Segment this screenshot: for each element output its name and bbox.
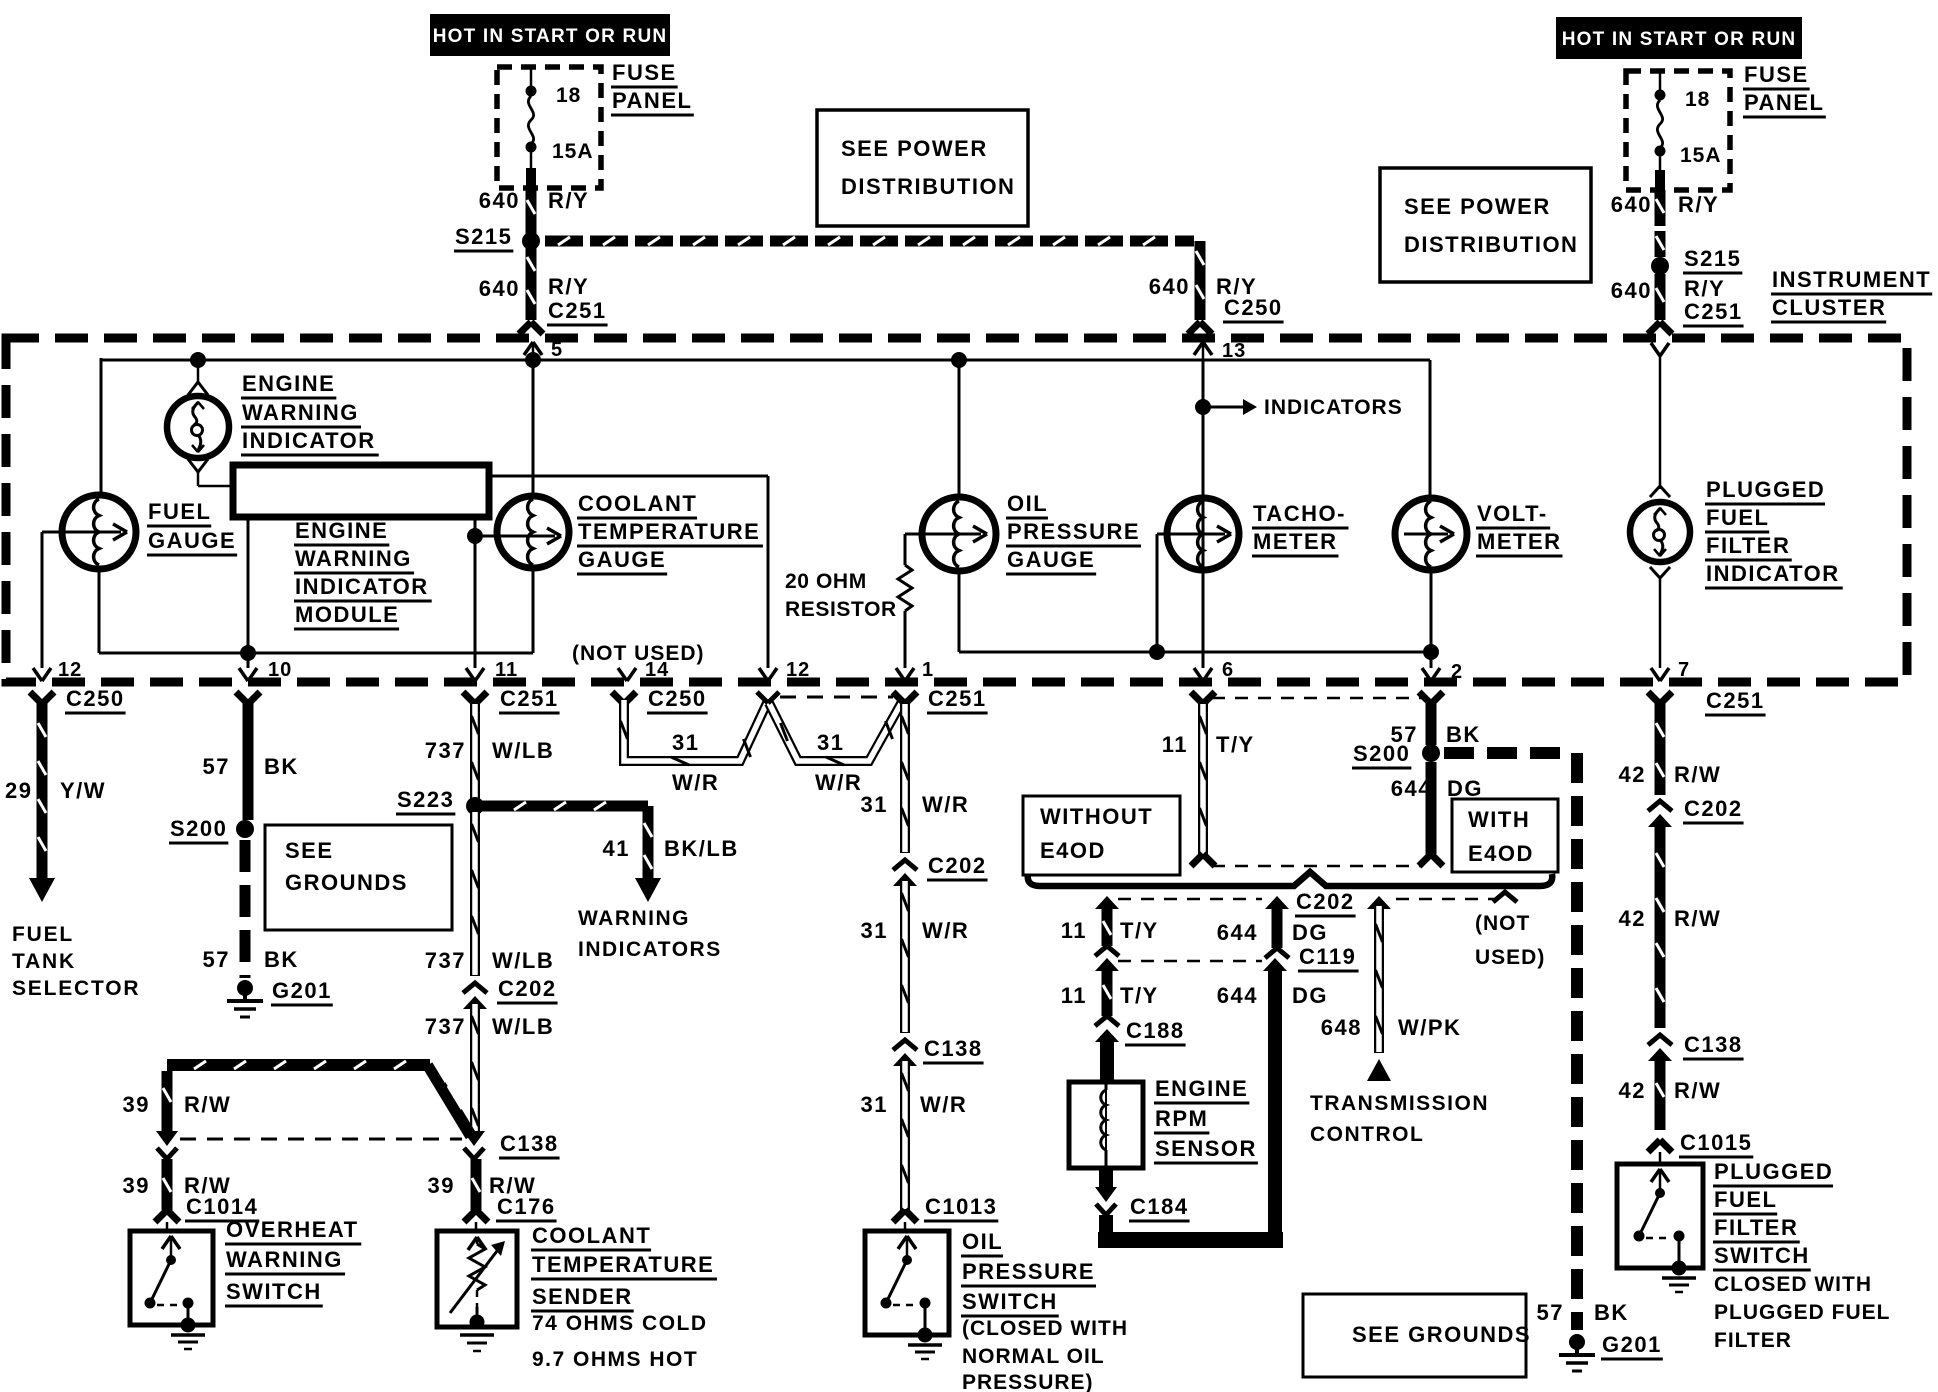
wire 42 R/W pin 7 to C202: [1655, 703, 1666, 795]
svg-text:Y/W: Y/W: [60, 778, 106, 803]
pin 10 arrow: [239, 668, 248, 681]
svg-text:11: 11: [1061, 918, 1087, 943]
dashed connector boundary bottom: [1212, 865, 1422, 868]
svg-text:737: 737: [425, 1014, 466, 1039]
wire module to pin 12 (right): [489, 475, 768, 478]
svg-text:RESISTOR: RESISTOR: [785, 598, 897, 621]
wire 644 DG segment C202-C119: [1265, 896, 1289, 909]
node bus-oil gauge: [951, 352, 967, 368]
svg-text:COOLANT: COOLANT: [578, 491, 697, 516]
wire 644 DG S200 down: [1426, 762, 1437, 854]
svg-text:SELECTOR: SELECTOR: [12, 977, 140, 1000]
connector C251 pin 1 below cluster: [893, 692, 905, 704]
connector C184: [1095, 1187, 1117, 1202]
note box SEE GROUNDS (mid): [265, 825, 452, 930]
splice S215 (left): [522, 232, 540, 250]
svg-text:644: 644: [1217, 983, 1258, 1008]
svg-text:39: 39: [428, 1173, 455, 1198]
ground plugged fuel filter switch: [1672, 1261, 1687, 1276]
svg-text:C188: C188: [1126, 1018, 1185, 1043]
connector C251 pin 7 below cluster: [1648, 692, 1660, 704]
wire tachometer sense: [1156, 534, 1159, 652]
svg-text:SENSOR: SENSOR: [1155, 1136, 1257, 1161]
svg-text:S215: S215: [455, 224, 512, 249]
svg-text:7: 7: [1678, 659, 1690, 681]
svg-text:W/R: W/R: [815, 770, 862, 795]
svg-text:39: 39: [123, 1173, 150, 1198]
dashed connector boundary top: [1212, 697, 1422, 700]
wire coolant gauge to bus pin 5: [532, 360, 535, 496]
pin 1 arrow: [896, 668, 905, 681]
svg-text:PRESSURE: PRESSURE: [1007, 519, 1140, 544]
svg-text:20 OHM: 20 OHM: [785, 570, 867, 593]
svg-text:WARNING: WARNING: [242, 400, 359, 425]
svg-text:C202: C202: [498, 976, 557, 1001]
pin 11 arrow: [466, 668, 475, 681]
svg-text:11: 11: [1162, 732, 1188, 757]
wire 31 W/R C202 to C138: [900, 880, 910, 1033]
svg-text:DISTRIBUTION: DISTRIBUTION: [1404, 232, 1578, 257]
oil pressure gauge: [922, 497, 996, 571]
svg-text:644: 644: [1217, 920, 1258, 945]
fuse panel box (left): [497, 67, 601, 188]
cluster feed bus wire: [101, 359, 1430, 362]
svg-text:C250: C250: [66, 686, 125, 711]
svg-text:FUEL: FUEL: [12, 923, 74, 946]
connector C250 pin 14 below cluster: [612, 692, 624, 704]
wire 648 W/PK to transmission control: [1367, 896, 1391, 909]
connector C251 into cluster pin 5: [519, 322, 531, 334]
wire lamp to module: [197, 472, 200, 486]
svg-text:PANEL: PANEL: [612, 88, 692, 113]
svg-text:OVERHEAT: OVERHEAT: [226, 1217, 359, 1242]
plugged fuel filter switch box: [1659, 1152, 1662, 1164]
svg-text:DG: DG: [1292, 920, 1328, 945]
wire oil gauge return: [958, 571, 961, 652]
svg-text:FILTER: FILTER: [1714, 1329, 1792, 1352]
svg-text:C184: C184: [1130, 1194, 1189, 1219]
svg-text:57: 57: [1537, 1300, 1564, 1325]
fuse 18 (15A) right: [1659, 71, 1662, 91]
power label HOT IN START OR RUN (right): [1556, 17, 1802, 59]
svg-text:FILTER: FILTER: [1714, 1215, 1798, 1240]
wire 640 R/Y S215 to C251 (right): [1655, 274, 1666, 320]
wire 57 BK S200 to G201 (dashed): [240, 840, 251, 872]
wire pin13 through tachometer to pin 6: [1202, 360, 1205, 668]
svg-text:PLUGGED: PLUGGED: [1706, 477, 1825, 502]
svg-text:57: 57: [203, 754, 230, 779]
wire 11 T/Y segment C119-C188: [1095, 958, 1119, 971]
wire 57 BK dashed S200 to G201: [1444, 747, 1474, 759]
wire 11 T/Y segment C202-C119: [1095, 896, 1119, 909]
instrument cluster dashed border: [6, 338, 1907, 682]
svg-text:FUSE: FUSE: [1744, 62, 1809, 87]
wire fuel gauge return bus: [98, 569, 101, 653]
svg-text:74 OHMS COLD: 74 OHMS COLD: [532, 1312, 708, 1335]
svg-text:PRESSURE): PRESSURE): [962, 1371, 1094, 1392]
ground overheat warning switch: [181, 1318, 196, 1333]
transmission control off-page triangle: [1367, 1059, 1391, 1081]
pin 6 arrow: [1194, 668, 1203, 681]
svg-text:R/Y: R/Y: [1678, 192, 1719, 217]
svg-text:DISTRIBUTION: DISTRIBUTION: [841, 174, 1015, 199]
svg-text:INDICATOR: INDICATOR: [242, 428, 376, 453]
svg-text:FUEL: FUEL: [148, 499, 211, 524]
svg-text:640: 640: [1611, 192, 1652, 217]
note box SEE POWER DISTRIBUTION (right): [1380, 168, 1591, 282]
pin 12 arrow (left): [33, 668, 42, 681]
splice S223: [466, 797, 484, 815]
wire 57 BK pin 2 to S200: [1426, 703, 1437, 745]
wire 42 R/W C202 to C138: [1655, 821, 1666, 1028]
wire 31 W/R C138 to C1013: [900, 1060, 910, 1210]
engine rpm sensor box: [1069, 1082, 1143, 1168]
svg-text:INSTRUMENT: INSTRUMENT: [1772, 267, 1931, 292]
svg-text:31: 31: [817, 730, 844, 755]
svg-text:FUEL: FUEL: [1706, 505, 1769, 530]
svg-text:11: 11: [495, 659, 518, 681]
wire 640 R/Y fuse to S215 (left): [526, 188, 537, 236]
svg-text:29: 29: [5, 778, 32, 803]
svg-text:SEE POWER: SEE POWER: [1404, 194, 1551, 219]
tachometer: [1167, 498, 1239, 570]
svg-text:C202: C202: [1684, 796, 1743, 821]
svg-text:R/Y: R/Y: [1684, 276, 1725, 301]
svg-text:BK/LB: BK/LB: [664, 836, 739, 861]
svg-text:5: 5: [551, 339, 563, 361]
note box SEE POWER DISTRIBUTION (left): [817, 110, 1028, 226]
svg-text:METER: METER: [1477, 529, 1562, 554]
connector pin 2 below cluster: [1419, 692, 1431, 704]
svg-text:VOLT-: VOLT-: [1477, 501, 1548, 526]
fuel gauge: [62, 495, 136, 569]
pin 5 arrow: [524, 342, 533, 355]
svg-text:GROUNDS: GROUNDS: [285, 870, 408, 895]
connector C250 pin 12 below cluster: [30, 692, 42, 704]
svg-text:W/R: W/R: [922, 792, 969, 817]
svg-text:G201: G201: [1602, 1332, 1662, 1357]
connector C138 on 31 wire: [893, 1040, 917, 1050]
connector C1014: [155, 1210, 167, 1222]
svg-text:C202: C202: [928, 853, 987, 878]
connector pin 6 below cluster: [1191, 692, 1203, 704]
overheat warning switch box: [166, 1222, 169, 1231]
svg-text:FUSE: FUSE: [612, 60, 677, 85]
svg-text:ENGINE: ENGINE: [1155, 1076, 1248, 1101]
svg-text:PLUGGED: PLUGGED: [1714, 1159, 1833, 1184]
connector pin 10 below cluster: [236, 692, 248, 704]
svg-text:T/Y: T/Y: [1120, 983, 1159, 1008]
svg-text:640: 640: [1149, 274, 1190, 299]
svg-text:BK: BK: [264, 754, 299, 779]
svg-text:C251: C251: [1706, 688, 1765, 713]
svg-text:CLUSTER: CLUSTER: [1772, 295, 1886, 320]
pin 14 arrow: [618, 668, 627, 681]
svg-text:PLUGGED FUEL: PLUGGED FUEL: [1714, 1301, 1891, 1324]
dashed line C119 row: [1118, 960, 1262, 963]
svg-text:C251: C251: [500, 686, 559, 711]
svg-text:737: 737: [425, 948, 466, 973]
rpm sensor coil: [1105, 1082, 1107, 1168]
node voltmeter-return bus: [1423, 644, 1439, 660]
svg-text:TEMPERATURE: TEMPERATURE: [578, 519, 760, 544]
wire 640 R/Y fuse to S215 (right): [1655, 190, 1666, 226]
wire 11 T/Y pin 6 down: [1198, 703, 1208, 855]
svg-text:METER: METER: [1253, 529, 1338, 554]
svg-text:INDICATOR: INDICATOR: [1706, 561, 1840, 586]
wire 31 W/R pin1 to C202: [900, 703, 910, 853]
svg-text:C176: C176: [497, 1194, 556, 1219]
connector C202 on 31 wire: [893, 860, 917, 870]
svg-text:6: 6: [1222, 659, 1234, 681]
svg-text:18: 18: [1685, 88, 1710, 111]
wire 640 R/Y dashed bus S215 to right drop: [545, 236, 583, 247]
svg-text:GAUGE: GAUGE: [148, 528, 236, 553]
wire 644 DG return loop: [1099, 1215, 1113, 1240]
svg-text:E4OD: E4OD: [1040, 838, 1106, 863]
svg-text:42: 42: [1619, 762, 1646, 787]
svg-text:13: 13: [1222, 340, 1246, 362]
svg-text:31: 31: [672, 730, 699, 755]
note box WITH E4OD: [1452, 799, 1558, 872]
cluster return bus wire: [959, 651, 1431, 654]
connector C250 into cluster pin 13: [1188, 322, 1200, 334]
svg-text:WITH: WITH: [1468, 807, 1530, 832]
svg-text:TRANSMISSION: TRANSMISSION: [1310, 1092, 1489, 1115]
svg-text:T/Y: T/Y: [1216, 732, 1255, 757]
svg-text:R/W: R/W: [1674, 762, 1721, 787]
svg-text:(CLOSED WITH: (CLOSED WITH: [962, 1317, 1128, 1340]
svg-text:NORMAL OIL: NORMAL OIL: [962, 1345, 1105, 1368]
svg-text:TEMPERATURE: TEMPERATURE: [532, 1252, 714, 1277]
node tach sense-return bus: [1149, 644, 1165, 660]
svg-text:S200: S200: [1353, 741, 1410, 766]
coolant temperature sender box: [475, 1222, 478, 1231]
voltmeter: [1395, 498, 1467, 570]
node indicators branch: [1195, 399, 1211, 415]
svg-text:640: 640: [1611, 278, 1652, 303]
svg-text:COOLANT: COOLANT: [532, 1223, 651, 1248]
svg-text:31: 31: [861, 792, 888, 817]
fuse panel box (right): [1626, 71, 1730, 190]
wire 737 W/LB S223 to C202: [470, 811, 480, 976]
svg-text:10: 10: [268, 659, 292, 681]
connector C202 (right): [1648, 801, 1672, 811]
svg-text:CONTROL: CONTROL: [1310, 1123, 1424, 1146]
resistor 20 OHM: [898, 565, 912, 611]
svg-text:C138: C138: [500, 1131, 559, 1156]
svg-text:G201: G201: [272, 978, 332, 1003]
svg-text:BK: BK: [1446, 722, 1481, 747]
svg-text:FILTER: FILTER: [1706, 533, 1790, 558]
connector C1013: [893, 1210, 905, 1222]
connector C202 on 737 wire: [463, 983, 487, 993]
svg-text:FUEL: FUEL: [1714, 1187, 1777, 1212]
wire 737 W/LB pin 11 to S223: [470, 703, 480, 801]
wire rpm sensor to C184: [1099, 1168, 1113, 1188]
svg-text:BK: BK: [264, 947, 299, 972]
svg-text:15A: 15A: [552, 140, 594, 163]
svg-text:WARNING: WARNING: [226, 1247, 343, 1272]
svg-text:TANK: TANK: [12, 950, 76, 973]
svg-text:SEE POWER: SEE POWER: [841, 136, 988, 161]
pin 7 arrow: [1651, 668, 1660, 681]
splice S200 (right): [1422, 744, 1440, 762]
connector C1015: [1648, 1140, 1660, 1152]
dashed line C202 row: [1118, 898, 1262, 901]
svg-text:BK: BK: [1594, 1300, 1629, 1325]
svg-text:R/Y: R/Y: [548, 274, 589, 299]
svg-text:1: 1: [922, 659, 934, 681]
wire bus to oil pressure gauge: [958, 360, 961, 498]
svg-text:(NOT: (NOT: [1475, 912, 1530, 935]
wire 644 DG segment below C119: [1263, 958, 1287, 971]
svg-text:11: 11: [1061, 983, 1087, 1008]
svg-text:2: 2: [1451, 661, 1463, 683]
wire bus to voltmeter: [1429, 360, 1432, 498]
svg-text:SENDER: SENDER: [532, 1284, 633, 1309]
svg-text:640: 640: [479, 276, 520, 301]
svg-text:S223: S223: [397, 787, 454, 812]
oil pressure switch box: [904, 1222, 907, 1231]
svg-text:C1015: C1015: [1680, 1130, 1752, 1155]
engine warning indicator module box: [233, 465, 489, 517]
svg-text:15A: 15A: [1680, 144, 1722, 167]
svg-text:TACHO-: TACHO-: [1253, 501, 1346, 526]
ground G201 (left): [237, 980, 253, 996]
dashed link apex to pin 1: [780, 696, 893, 699]
svg-text:C1014: C1014: [186, 1194, 258, 1219]
svg-text:RPM: RPM: [1155, 1106, 1208, 1131]
pin 2 arrow: [1422, 668, 1431, 681]
svg-text:18: 18: [556, 84, 581, 107]
svg-text:C138: C138: [924, 1036, 983, 1061]
connector C138 right half: [463, 1131, 485, 1146]
svg-text:648: 648: [1321, 1015, 1362, 1040]
svg-text:CLOSED WITH: CLOSED WITH: [1714, 1273, 1872, 1296]
splice S200 (left): [236, 820, 254, 838]
fuse 18 (15A) left: [530, 67, 533, 87]
svg-text:737: 737: [425, 738, 466, 763]
svg-text:SWITCH: SWITCH: [226, 1279, 322, 1304]
svg-text:W/R: W/R: [672, 770, 719, 795]
connector C138 (right): [1648, 1035, 1672, 1045]
svg-text:ENGINE: ENGINE: [242, 371, 335, 396]
connector pin 12 fork (zigzag apex): [757, 692, 768, 703]
svg-text:ENGINE: ENGINE: [295, 518, 388, 543]
wire 31 W/R zigzag pin14-pin12-pin1: [624, 700, 767, 761]
connector C138 left half: [156, 1131, 178, 1146]
svg-text:W/LB: W/LB: [492, 1014, 554, 1039]
wire 39 R/W C138 to C1014: [162, 1159, 173, 1210]
svg-text:12: 12: [58, 659, 82, 681]
connector fork bottom of 11 T/Y: [1191, 854, 1203, 866]
indicators feed arrow: [1203, 406, 1245, 409]
coolant temperature gauge: [497, 496, 569, 568]
wire 640 R/Y drop to C250 (right end of bus): [1195, 241, 1206, 320]
node bus-coolant gauge: [525, 352, 541, 368]
svg-text:S200: S200: [170, 816, 227, 841]
svg-text:C250: C250: [648, 686, 707, 711]
svg-text:SEE GROUNDS: SEE GROUNDS: [1352, 1322, 1531, 1347]
wire voltmeter return: [1430, 570, 1433, 668]
wire 57 BK pin 10 to S200: [243, 703, 254, 820]
wire 11 T/Y C188 to rpm sensor: [1100, 1036, 1114, 1082]
sender variable resistor: [468, 1237, 477, 1250]
wire 29 Y/W to fuel tank selector: [37, 703, 48, 878]
plugged fuel filter indicator lamp: [1650, 486, 1670, 497]
ground G201 (right): [1569, 1334, 1585, 1350]
svg-text:C1013: C1013: [925, 1194, 997, 1219]
wire 42 R/W C138 to C1015: [1655, 1055, 1666, 1130]
svg-text:42: 42: [1619, 1078, 1646, 1103]
pin 12 arrow (right): [759, 668, 768, 681]
svg-text:SWITCH: SWITCH: [962, 1289, 1058, 1314]
svg-text:39: 39: [123, 1092, 150, 1117]
svg-text:C138: C138: [1684, 1032, 1743, 1057]
svg-text:SWITCH: SWITCH: [1714, 1243, 1810, 1268]
svg-text:R/Y: R/Y: [548, 188, 589, 213]
wire module bottom-right to pin 11: [474, 517, 477, 668]
svg-text:31: 31: [861, 918, 888, 943]
svg-text:USED): USED): [1475, 946, 1545, 969]
wire fuel gauge sense to pin 12: [41, 532, 44, 668]
svg-text:INDICATOR: INDICATOR: [295, 574, 429, 599]
connector stub (NOT USED): [1493, 892, 1517, 902]
svg-text:OIL: OIL: [1007, 491, 1048, 516]
svg-text:T/Y: T/Y: [1120, 918, 1159, 943]
svg-text:W/R: W/R: [922, 918, 969, 943]
entry arrow plugged fuel filter feed: [1651, 343, 1660, 356]
harness brace: [1028, 872, 1553, 886]
svg-text:C250: C250: [1224, 295, 1283, 320]
power label HOT IN START OR RUN (left): [430, 14, 670, 56]
svg-text:31: 31: [861, 1092, 888, 1117]
node module-fuel return: [240, 645, 256, 661]
svg-text:GAUGE: GAUGE: [1007, 547, 1095, 572]
ground oil pressure switch: [918, 1328, 933, 1343]
ground coolant temperature sender: [470, 1315, 485, 1330]
svg-text:W/R: W/R: [920, 1092, 967, 1117]
svg-text:DG: DG: [1447, 776, 1483, 801]
svg-text:HOT IN START OR RUN: HOT IN START OR RUN: [1562, 29, 1797, 50]
svg-text:DG: DG: [1292, 983, 1328, 1008]
svg-text:INDICATORS: INDICATORS: [578, 938, 722, 961]
wire 640 R/Y below S215 (left): [526, 247, 537, 320]
wire 737 W/LB C202 to C138: [470, 1003, 480, 1136]
svg-text:9.7 OHMS HOT: 9.7 OHMS HOT: [532, 1348, 698, 1371]
note box WITHOUT E4OD: [1023, 796, 1180, 875]
note box SEE GROUNDS (bottom): [1303, 1294, 1526, 1377]
svg-text:MODULE: MODULE: [295, 602, 399, 627]
svg-text:C251: C251: [928, 686, 987, 711]
svg-text:HOT IN START OR RUN: HOT IN START OR RUN: [433, 26, 668, 47]
svg-text:S215: S215: [1684, 246, 1741, 271]
svg-text:GAUGE: GAUGE: [578, 547, 666, 572]
node module-coolant gauge: [467, 528, 483, 544]
svg-text:57: 57: [203, 947, 230, 972]
svg-text:R/W: R/W: [1674, 1078, 1721, 1103]
svg-text:640: 640: [479, 188, 520, 213]
svg-text:14: 14: [645, 659, 669, 681]
svg-text:SEE: SEE: [285, 838, 334, 863]
wire 39 R/W C138 to C176: [471, 1159, 482, 1210]
connector C251 pin 11 below cluster: [463, 692, 475, 704]
splice S215 (right): [1651, 257, 1669, 275]
svg-text:WITHOUT: WITHOUT: [1040, 804, 1153, 829]
svg-text:W/PK: W/PK: [1398, 1015, 1461, 1040]
svg-text:41: 41: [603, 836, 630, 861]
